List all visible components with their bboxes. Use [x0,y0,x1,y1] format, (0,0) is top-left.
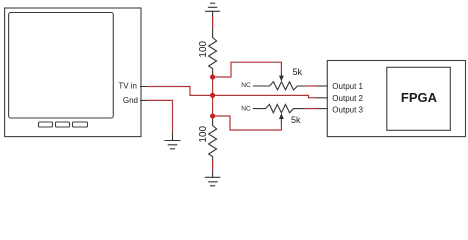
svg-text:NC: NC [241,105,251,112]
svg-text:Gnd: Gnd [123,96,138,105]
svg-text:5k: 5k [293,67,303,77]
svg-text:Output 1: Output 1 [332,82,363,91]
svg-text:Output 2: Output 2 [332,94,363,103]
svg-text:NC: NC [241,82,251,89]
svg-text:FPGA: FPGA [401,90,438,105]
svg-text:TV in: TV in [118,82,137,91]
svg-text:100: 100 [198,40,209,57]
svg-text:5k: 5k [291,115,301,125]
svg-text:100: 100 [198,125,209,142]
svg-text:Output 3: Output 3 [332,106,363,115]
